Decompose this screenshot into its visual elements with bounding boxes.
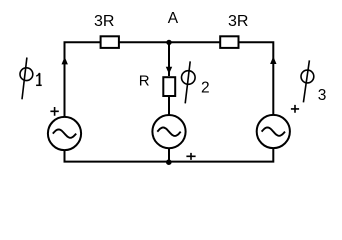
polarity + of V3 — [291, 105, 299, 113]
resistor 3R (left) — [94, 13, 119, 48]
current arrow down (middle branch) — [166, 67, 172, 74]
wire bottom rail — [65, 148, 274, 162]
AC source V1 — [48, 117, 81, 150]
polarity + of V2 — [186, 153, 195, 160]
svg-text:R: R — [139, 72, 150, 89]
wire top rail with left and right drops — [65, 42, 274, 117]
resistor 3R (right) — [220, 13, 248, 48]
flux symbol phi 3 — [301, 60, 326, 103]
resistor R (middle) — [139, 72, 175, 96]
svg-text:3R: 3R — [228, 13, 248, 30]
current arrow up (right branch) — [270, 56, 276, 64]
svg-text:3: 3 — [318, 87, 327, 104]
node A — [166, 10, 179, 45]
svg-text:2: 2 — [201, 79, 210, 96]
svg-text:3R: 3R — [94, 13, 114, 30]
svg-text:A: A — [168, 10, 179, 27]
wire middle source to bottom rail — [168, 148, 170, 162]
current arrow up (left branch) — [62, 57, 68, 65]
polarity + of V1 — [50, 107, 58, 116]
AC source V3 — [257, 115, 290, 148]
AC source V2 — [152, 115, 185, 148]
junction (bottom) — [166, 159, 172, 165]
wire middle branch lower (resistor R to source) — [168, 96, 170, 115]
flux symbol phi 2 — [182, 61, 210, 103]
wire middle branch upper (node A to resistor R) — [168, 42, 170, 76]
flux symbol phi 1 — [20, 58, 42, 100]
